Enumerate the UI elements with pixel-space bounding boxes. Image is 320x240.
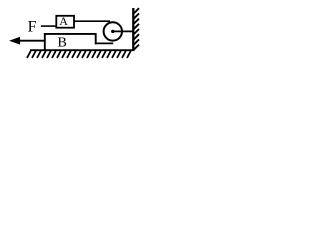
- wall line: [132, 8, 134, 51]
- block A box: [56, 16, 74, 28]
- block B top edge: [44, 33, 96, 35]
- ground hatching: [27, 51, 131, 58]
- svg-text:A: A: [59, 14, 68, 28]
- svg-text:B: B: [58, 36, 67, 51]
- pulley axle center dot: [111, 30, 114, 33]
- ground line: [30, 49, 134, 51]
- svg-text:F: F: [28, 18, 37, 35]
- force arrow F head: [9, 37, 20, 45]
- rope from B to pulley bottom: [95, 42, 113, 44]
- pulley wheel: [104, 22, 122, 40]
- wall hatching: [134, 8, 139, 49]
- background: [0, 0, 147, 70]
- block B right edge: [95, 33, 97, 44]
- rope from A to pulley: [74, 20, 110, 22]
- pulley axle bar to wall: [113, 30, 134, 32]
- force arrow F shaft: [18, 40, 45, 42]
- rope left of block A: [41, 25, 57, 27]
- block B left edge: [44, 33, 46, 50]
